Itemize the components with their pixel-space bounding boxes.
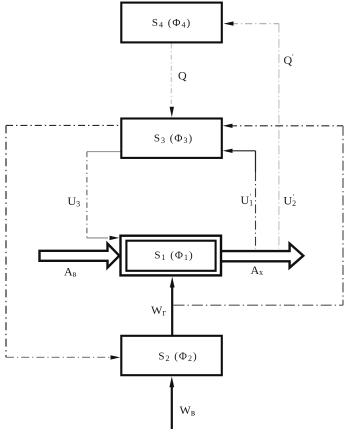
wire U3 vertical dash-dot [86,152,88,238]
wire S2 left input horizontal dash-dot [6,356,112,358]
arrowhead Q into S3 top [170,107,174,118]
wire Q'/U2' vertical dash-dot [278,24,280,249]
arrowhead Q' into S4 right [224,21,234,25]
wire S3 top-right input horizontal dash-dot [229,125,343,127]
wire U3 horizontal into S1 [87,237,108,239]
box S2 [121,336,222,375]
svg-text:U1ʹ: U1ʹ [241,193,254,208]
svg-text:U2ʹ: U2ʹ [284,193,297,208]
wire far right vertical dash-dot [342,126,344,305]
wire Wg vertical S2->S1 [171,285,173,336]
arrowhead Wg into S1 bottom [170,277,175,288]
wire Wv vertical bottom->S2 [171,385,173,429]
wire bottom horizontal dash-dot Wg tap [174,304,344,306]
wire U3 horizontal from S3 left [87,151,121,153]
arrowhead U3 into S1 left [110,236,120,240]
arrowhead U1' into S3 right bottom [223,149,233,153]
box S4 [121,3,222,43]
arrowhead Wv into S2 bottom [169,376,174,387]
wire S3 left output horizontal dash-dot [6,124,121,126]
block arrow Av input [40,244,120,268]
arrowhead into S3 right top [223,124,233,128]
wire U1' horizontal solid into S3 [229,150,256,152]
wire Q vertical dashed S4->S3 [170,44,172,105]
wire U1' vertical solid upper part [255,151,257,172]
wire left vertical dash-dot [5,125,7,357]
arrowhead into S2 left [111,355,121,359]
wire Q' horizontal dash-dot into S4 [231,23,279,25]
block arrow Ax output [220,244,303,268]
box S3 [121,119,222,158]
box S1 outer [121,236,222,276]
box S1 inner [126,241,215,271]
wire U1' vertical dash-dot lower part [255,172,257,249]
svg-text:Q: Q [178,69,187,83]
